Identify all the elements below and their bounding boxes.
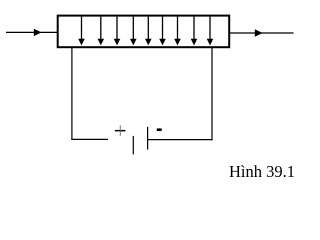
input current arrowhead	[34, 29, 42, 36]
field arrow 4	[130, 17, 137, 46]
field arrow 2	[98, 17, 105, 46]
wire left vertical	[71, 48, 73, 140]
field arrow 8	[191, 17, 198, 46]
label + (battery positive)	[115, 125, 126, 136]
field arrow 3	[114, 17, 121, 46]
wire right horizontal	[148, 139, 213, 141]
field arrow 9	[207, 17, 214, 46]
field arrow 5	[145, 17, 152, 46]
field arrow 6	[159, 17, 166, 46]
wire right vertical	[211, 47, 213, 140]
battery plate left (+)	[132, 136, 134, 155]
label - (battery negative)	[157, 128, 162, 131]
field arrow 7	[174, 17, 181, 46]
field arrow 1	[78, 17, 85, 46]
wire output lead	[230, 32, 294, 34]
output current arrowhead	[255, 29, 263, 36]
battery plate right (-)	[147, 127, 149, 150]
svg-text:Hình 39.1: Hình 39.1	[229, 162, 295, 181]
wire input lead	[6, 31, 57, 33]
conductor box	[58, 16, 230, 48]
wire left horizontal	[71, 138, 108, 140]
